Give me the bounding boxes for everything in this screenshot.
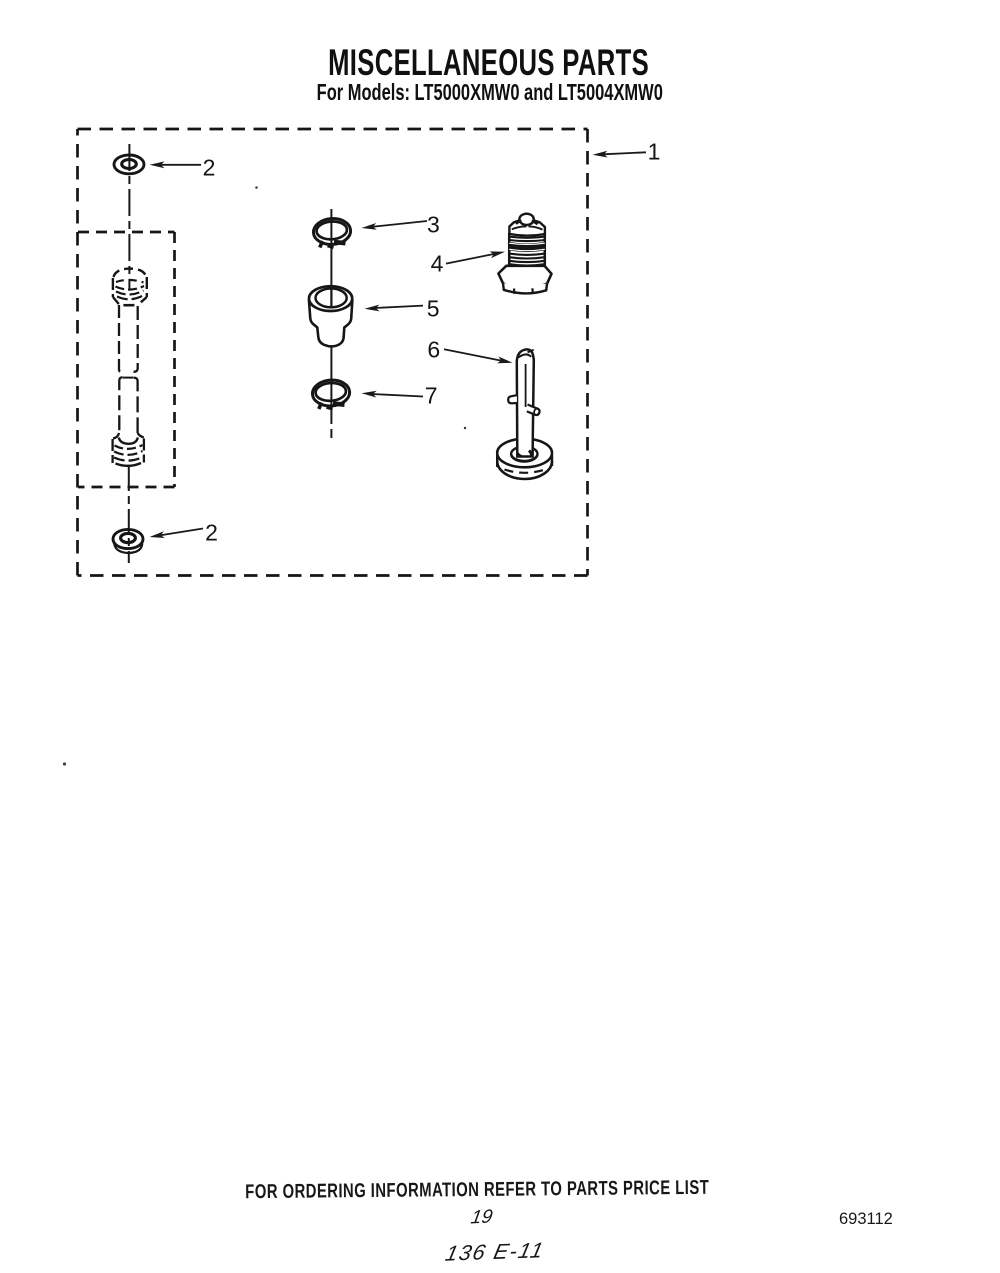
hose assembly: bottom coupling: [113, 433, 144, 466]
leader arrow to label 7: [372, 394, 423, 397]
center line (left column, lower): [128, 467, 130, 563]
tip dome: [519, 214, 533, 225]
svg-text:3: 3: [427, 212, 440, 238]
stray scan specks: [255, 186, 258, 189]
hose coupling, item 5: [309, 286, 352, 346]
page subtitle: [0, 79, 980, 106]
footer: page number (handwritten): [469, 1206, 494, 1229]
leveling leg, item 6: base: [497, 439, 552, 479]
center line (middle column): [330, 209, 332, 424]
hose clamp, item 3: [313, 217, 352, 245]
svg-text:1: 1: [648, 139, 661, 165]
right peg: [527, 405, 540, 416]
center line (left column, upper): [128, 144, 130, 290]
washer, item 2 (top): [114, 155, 144, 174]
hose clamp, item 7: [312, 379, 351, 407]
footer: handwritten reference: [443, 1238, 547, 1266]
svg-text:2: 2: [203, 155, 216, 181]
svg-text:7: 7: [425, 383, 438, 409]
leader arrow to label 2 (bottom): [159, 529, 203, 536]
hose assembly: lower tube: [119, 377, 137, 433]
svg-text:5: 5: [427, 296, 440, 322]
washer, item 2 (bottom): [113, 529, 143, 553]
leader arrow to label 5: [375, 306, 423, 308]
rod seat: [511, 455, 537, 461]
svg-text:4: 4: [431, 251, 444, 277]
leveling leg, item 6: rod: [508, 349, 540, 460]
leader arrow to label 3: [372, 221, 427, 227]
footer: ordering information line: [0, 1174, 954, 1206]
hose assembly: top coupling: [113, 269, 147, 306]
inlet hose fitting, item 4: [498, 214, 551, 294]
inner dashed sub-assembly box: [78, 232, 175, 487]
left peg: [508, 395, 517, 403]
collar band: [509, 220, 545, 235]
dashed kit boundary box (item 1): [78, 129, 588, 576]
page title: [0, 42, 978, 84]
svg-text:2: 2: [205, 520, 218, 546]
leader line from label 4: [446, 254, 495, 264]
svg-text:6: 6: [427, 337, 440, 363]
footer: document number: [839, 1210, 893, 1229]
leader arrow to label 1: [603, 152, 646, 154]
hose assembly: upper tube: [119, 305, 138, 372]
hex nut: [498, 266, 551, 289]
leader arrow to label 2 (top): [160, 164, 201, 166]
threaded body: [509, 233, 545, 268]
leader line from label 6: [444, 349, 503, 361]
